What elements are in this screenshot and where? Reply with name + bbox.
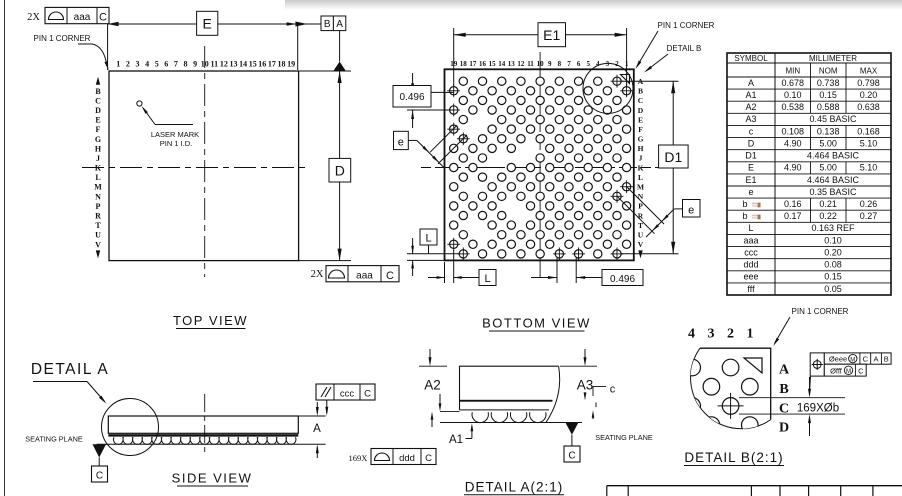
svg-text:T: T	[638, 221, 643, 230]
svg-text:V: V	[95, 240, 101, 249]
svg-text:A: A	[779, 363, 790, 378]
svg-text:0.10: 0.10	[784, 90, 802, 100]
datum C box	[92, 466, 108, 482]
detail B circular boundary	[691, 348, 771, 429]
svg-text:A3: A3	[745, 114, 756, 124]
frame row 1: Oeee M | C | A | B	[824, 353, 891, 364]
svg-text:ccc: ccc	[340, 388, 355, 399]
detail A circular cut boundary	[546, 366, 560, 422]
svg-text:M: M	[846, 369, 851, 375]
svg-text:c: c	[749, 126, 754, 136]
svg-text:B: B	[884, 355, 889, 364]
svg-text:15: 15	[489, 60, 497, 68]
svg-text:L: L	[425, 233, 431, 245]
svg-text:6: 6	[164, 60, 168, 69]
svg-text:13: 13	[508, 60, 516, 68]
detail A body outline	[460, 366, 559, 410]
svg-text:10: 10	[537, 60, 545, 68]
svg-text:0.738: 0.738	[817, 78, 840, 88]
svg-text:D: D	[779, 421, 789, 436]
svg-text:B: B	[638, 87, 643, 96]
top view vertical centerline	[204, 46, 206, 277]
parallelism ccc C frame	[316, 384, 375, 400]
dimension L (left, edge to row Y)	[407, 253, 459, 255]
svg-text:A2: A2	[745, 102, 756, 112]
svg-text:e: e	[688, 204, 694, 216]
svg-text:D: D	[335, 163, 345, 179]
detail A solder bumps (2:1)	[472, 412, 546, 422]
svg-text:J: J	[639, 154, 643, 163]
svg-text:A3: A3	[577, 378, 594, 393]
svg-text:14: 14	[239, 60, 247, 69]
svg-text:0.538: 0.538	[782, 102, 805, 112]
svg-text:U: U	[638, 231, 644, 240]
svg-text:12: 12	[220, 60, 228, 69]
svg-text:5.00: 5.00	[819, 139, 837, 149]
svg-text:DETAIL B(2:1): DETAIL B(2:1)	[684, 450, 783, 465]
D1 top extension from ball A2	[621, 80, 679, 82]
scan shading top edge	[285, 0, 902, 10]
svg-text:C: C	[99, 12, 107, 24]
svg-text:4.464 BASIC: 4.464 BASIC	[807, 175, 860, 185]
svg-text:MILLIMETER: MILLIMETER	[809, 54, 857, 63]
svg-text:G: G	[638, 135, 644, 144]
svg-text:E: E	[95, 116, 100, 125]
svg-text:7: 7	[174, 60, 178, 69]
svg-text:D1: D1	[745, 151, 757, 161]
svg-text:N: N	[638, 192, 644, 201]
laser mark pin 1 I.D.	[137, 101, 142, 106]
svg-text:A1: A1	[449, 434, 463, 446]
bottom view vertical centerline	[539, 52, 541, 278]
top view column numbers 1-19	[116, 60, 295, 69]
svg-text:MAX: MAX	[860, 67, 878, 76]
svg-text:B: B	[95, 87, 101, 96]
svg-text:b: b	[742, 211, 747, 221]
svg-text:0.163 REF: 0.163 REF	[811, 223, 855, 233]
svg-text:12: 12	[517, 60, 525, 68]
svg-text:C: C	[568, 450, 575, 461]
DETAIL A (2:1)	[349, 349, 653, 495]
svg-text:169X: 169X	[349, 453, 368, 463]
seating plane datum C (detail A)	[565, 423, 578, 435]
svg-text:17: 17	[268, 60, 276, 69]
svg-text:6: 6	[577, 60, 581, 68]
svg-text:C: C	[364, 388, 371, 399]
svg-text:8: 8	[558, 60, 562, 68]
svg-text:3: 3	[708, 327, 715, 342]
svg-text:E: E	[748, 163, 754, 173]
svg-text:0.08: 0.08	[824, 260, 842, 270]
TOP VIEW	[27, 7, 399, 328]
svg-text:16: 16	[479, 60, 487, 68]
side view solder bumps	[113, 437, 296, 444]
svg-text:5: 5	[586, 60, 590, 68]
svg-text:0.20: 0.20	[824, 248, 842, 258]
svg-text:2X: 2X	[27, 12, 40, 23]
svg-text:0.15: 0.15	[824, 272, 842, 282]
svg-text:C: C	[638, 96, 643, 105]
svg-text:ddd: ddd	[399, 453, 415, 464]
svg-text:E: E	[638, 115, 643, 124]
svg-text:E: E	[203, 16, 212, 32]
svg-text:PIN 1 I.D.: PIN 1 I.D.	[160, 139, 193, 148]
svg-text:19: 19	[287, 60, 295, 69]
svg-text:E1: E1	[543, 27, 560, 43]
svg-text:3: 3	[136, 60, 140, 69]
svg-text:0.138: 0.138	[817, 126, 840, 136]
svg-text:A: A	[748, 78, 754, 88]
svg-text:11: 11	[527, 60, 534, 68]
svg-text:K: K	[638, 163, 644, 172]
svg-text:C: C	[863, 355, 869, 364]
svg-text:5: 5	[155, 60, 159, 69]
svg-text:0.588: 0.588	[817, 102, 840, 112]
svg-text:BOTTOM VIEW: BOTTOM VIEW	[482, 316, 591, 331]
svg-text:H: H	[95, 144, 102, 153]
solder ball grid 169X (19x19 staggered)	[447, 75, 633, 260]
dimension table	[727, 53, 891, 295]
datum feature triangle	[334, 62, 346, 71]
SIDE VIEW	[25, 361, 375, 486]
BOTTOM VIEW	[393, 21, 715, 331]
bottom view package body outline	[445, 69, 634, 260]
svg-text:0.798: 0.798	[857, 78, 880, 88]
svg-text:0.20: 0.20	[860, 90, 878, 100]
svg-text:18: 18	[278, 60, 286, 69]
svg-text:D: D	[95, 106, 101, 115]
svg-text:J: J	[96, 154, 100, 163]
svg-text:F: F	[96, 125, 101, 134]
svg-text:A1: A1	[745, 90, 756, 100]
svg-text:9: 9	[193, 60, 197, 69]
svg-text:14: 14	[498, 60, 506, 68]
pin 1 chamfer triangle mark	[621, 75, 630, 84]
bottom view row letters column	[637, 77, 644, 258]
dimension L (bottom, edge to col 19)	[444, 262, 446, 283]
svg-text:SIDE VIEW: SIDE VIEW	[172, 471, 253, 486]
svg-text:3: 3	[606, 60, 610, 68]
svg-text:2X: 2X	[311, 269, 324, 280]
svg-text:A: A	[336, 19, 343, 30]
svg-text:M: M	[850, 357, 855, 363]
frame row 2: Offf M | C	[824, 364, 866, 376]
svg-text:15: 15	[249, 60, 257, 69]
svg-text:L: L	[95, 173, 100, 182]
svg-text:L: L	[638, 173, 643, 182]
svg-text:B: B	[779, 382, 788, 397]
svg-text:5.00: 5.00	[819, 163, 837, 173]
svg-text:4: 4	[145, 60, 149, 69]
svg-text:0.17: 0.17	[784, 211, 802, 221]
svg-text:b: b	[742, 199, 747, 209]
svg-text:A: A	[873, 355, 878, 364]
svg-text:0.678: 0.678	[782, 78, 805, 88]
svg-text:0.496: 0.496	[399, 92, 424, 103]
svg-text:18: 18	[460, 60, 468, 68]
svg-text:PIN 1 CORNER: PIN 1 CORNER	[34, 34, 91, 43]
side view substrate (thick line)	[108, 434, 298, 436]
svg-text:eee: eee	[743, 272, 758, 282]
svg-text:0.15: 0.15	[819, 90, 837, 100]
svg-text:4.90: 4.90	[784, 163, 802, 173]
diagonal extension through balls G18 H19	[438, 135, 467, 164]
top view row letters column	[94, 77, 102, 259]
svg-text:TOP VIEW: TOP VIEW	[173, 313, 248, 328]
svg-text:2: 2	[126, 60, 130, 69]
svg-text:13: 13	[230, 60, 238, 69]
e dimension line	[646, 209, 674, 237]
svg-text:SEATING PLANE: SEATING PLANE	[595, 433, 653, 442]
svg-text:0.16: 0.16	[784, 199, 802, 209]
detail B balls	[684, 359, 758, 433]
dimension 0.496 (bottom, ball pitch)	[556, 258, 558, 283]
svg-text:SEATING PLANE: SEATING PLANE	[25, 435, 83, 444]
side view package body	[108, 416, 298, 433]
svg-text:R: R	[638, 211, 644, 220]
dimension E1	[454, 34, 538, 36]
top view package body outline	[109, 71, 299, 261]
top edge extension line	[299, 70, 351, 72]
svg-text:2: 2	[727, 327, 734, 342]
svg-text:NOM: NOM	[819, 67, 838, 76]
svg-text:DETAIL A: DETAIL A	[31, 361, 109, 378]
svg-text:ddd: ddd	[743, 260, 758, 270]
svg-text:DETAIL A(2:1): DETAIL A(2:1)	[465, 480, 564, 495]
svg-text:0.496: 0.496	[610, 274, 635, 285]
svg-text:16: 16	[258, 60, 266, 69]
e label box	[394, 131, 409, 149]
svg-text:2: 2	[615, 60, 619, 68]
svg-text:7: 7	[567, 60, 571, 68]
dimension 0.496 (left, ball pitch)	[431, 91, 454, 93]
detail A seating plane	[440, 422, 582, 424]
svg-text:0.108: 0.108	[782, 126, 805, 136]
svg-text:▒▒▓: ▒▒▓	[752, 202, 761, 208]
D1 bottom extension from ball Y2	[621, 253, 679, 255]
substrate bottom extension	[440, 410, 460, 412]
dimension A3	[560, 365, 597, 367]
datum boxes B A	[321, 16, 333, 31]
svg-text:D1: D1	[664, 149, 682, 165]
diagonal extension through ball F19	[430, 125, 457, 152]
svg-text:ccc: ccc	[744, 248, 758, 258]
svg-text:aaa: aaa	[356, 270, 373, 281]
ball C2 crosshair	[718, 405, 744, 407]
svg-text:5.10: 5.10	[860, 139, 878, 149]
detail B package corner edges	[700, 348, 771, 419]
svg-text:PIN 1 CORNER: PIN 1 CORNER	[658, 21, 715, 30]
svg-text:0.27: 0.27	[860, 211, 878, 221]
svg-text:C: C	[96, 470, 103, 481]
svg-text:0.35 BASIC: 0.35 BASIC	[809, 187, 857, 197]
svg-text:DETAIL B: DETAIL B	[667, 44, 702, 53]
svg-text:LASER MARK: LASER MARK	[151, 130, 199, 139]
svg-text:A: A	[313, 423, 321, 435]
svg-text:M: M	[94, 183, 102, 192]
svg-text:4: 4	[596, 60, 600, 68]
e dimension line	[417, 140, 445, 168]
bottom view column numbers 19-1	[450, 60, 629, 68]
svg-text:C: C	[95, 96, 101, 105]
bottom view horizontal centerline	[421, 167, 660, 169]
svg-text:L: L	[484, 273, 490, 285]
detail B chamfer triangle	[744, 358, 762, 373]
svg-text:C: C	[858, 367, 864, 376]
svg-text:4.464 BASIC: 4.464 BASIC	[807, 151, 860, 161]
svg-text:L: L	[748, 223, 753, 233]
svg-text:N: N	[95, 192, 101, 201]
svg-text:E1: E1	[745, 175, 756, 185]
svg-text:R: R	[95, 212, 101, 221]
svg-text:0.05: 0.05	[824, 284, 842, 294]
DETAIL B (2:1)	[684, 307, 891, 466]
svg-text:169XØb: 169XØb	[797, 403, 839, 415]
svg-text:1: 1	[747, 327, 754, 342]
svg-text:B: B	[324, 19, 331, 30]
svg-text:1: 1	[116, 60, 120, 69]
svg-text:Øfff: Øfff	[830, 367, 843, 376]
svg-text:c: c	[610, 384, 616, 396]
diagonal extension through ball N2	[617, 196, 655, 234]
detail A substrate bottom	[460, 409, 550, 411]
svg-text:0.168: 0.168	[857, 126, 880, 136]
svg-text:e: e	[398, 136, 404, 148]
e label box	[683, 200, 701, 218]
svg-text:H: H	[638, 144, 644, 153]
diagonal extension through ball M1	[627, 187, 664, 224]
svg-text:17: 17	[469, 60, 477, 68]
svg-text:D: D	[638, 106, 644, 115]
svg-text:U: U	[95, 231, 101, 240]
svg-text:F: F	[638, 125, 643, 134]
svg-text:11: 11	[211, 60, 219, 69]
position symbol cell	[810, 353, 824, 376]
detail A substrate top (thick)	[460, 400, 553, 402]
svg-text:4: 4	[688, 327, 695, 342]
svg-text:4.90: 4.90	[784, 139, 802, 149]
dimension A2	[419, 365, 447, 367]
svg-text:P: P	[96, 202, 101, 211]
dimension 169X Ob	[739, 397, 845, 399]
svg-text:▒▒▓: ▒▒▓	[752, 214, 761, 220]
bottom edge extension line	[299, 260, 351, 262]
svg-text:C: C	[386, 270, 394, 282]
datum C triangle	[93, 444, 107, 457]
title block (bottom right, cropped)	[607, 485, 902, 487]
svg-text:Øeee: Øeee	[829, 355, 847, 364]
top view horizontal centerline	[82, 167, 309, 169]
svg-text:SYMBOL: SYMBOL	[734, 54, 768, 63]
svg-text:e: e	[748, 187, 753, 197]
dimension E	[108, 23, 197, 25]
svg-text:9: 9	[548, 60, 552, 68]
svg-text:aaa: aaa	[74, 12, 91, 23]
dimension A	[299, 415, 326, 417]
svg-text:0.45 BASIC: 0.45 BASIC	[809, 114, 857, 124]
svg-text:10: 10	[201, 60, 209, 69]
svg-text:0.638: 0.638	[857, 102, 880, 112]
svg-text:C: C	[425, 453, 432, 464]
detail A boundary circle	[102, 399, 159, 456]
svg-text:0.22: 0.22	[819, 211, 837, 221]
svg-text:K: K	[95, 164, 102, 173]
svg-text:0.10: 0.10	[824, 235, 842, 245]
svg-text:PIN 1 CORNER: PIN 1 CORNER	[792, 307, 849, 316]
svg-text:0.26: 0.26	[860, 199, 878, 209]
svg-text:T: T	[95, 221, 101, 230]
drawing sheet border (left)	[4, 0, 6, 496]
svg-text:A2: A2	[424, 378, 441, 393]
side view centerline	[204, 394, 206, 453]
svg-text:D: D	[748, 139, 755, 149]
svg-text:fff: fff	[747, 284, 755, 294]
svg-text:G: G	[95, 135, 101, 144]
svg-text:MIN: MIN	[785, 67, 800, 76]
svg-text:V: V	[638, 240, 644, 249]
detail B boundary circle	[583, 63, 633, 113]
svg-text:8: 8	[184, 60, 188, 69]
table outer border	[727, 53, 891, 295]
svg-text:0.21: 0.21	[819, 199, 837, 209]
svg-text:M: M	[637, 183, 644, 192]
svg-text:5.10: 5.10	[860, 163, 878, 173]
svg-text:aaa: aaa	[743, 235, 758, 245]
seating plane line	[97, 443, 307, 445]
